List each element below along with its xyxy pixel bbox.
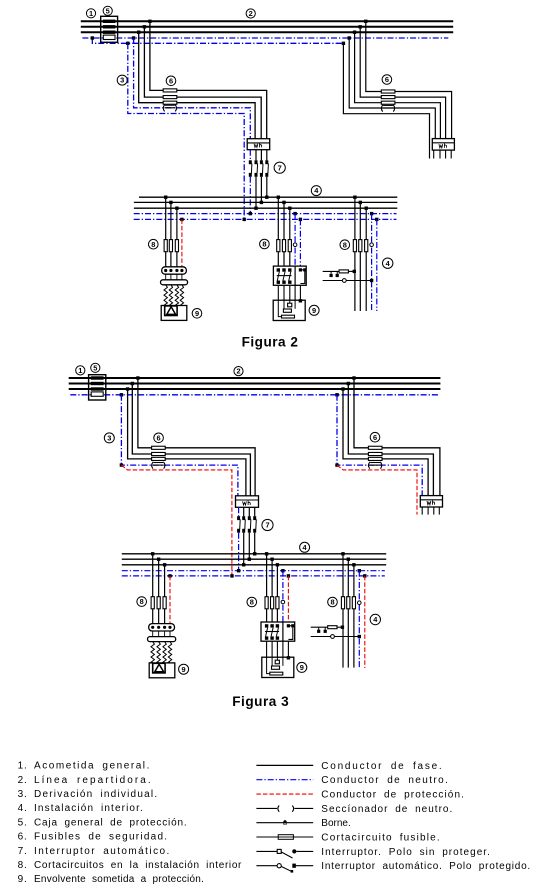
wire salidas contador derecha (Fig2): [434, 150, 452, 158]
wire rama central salidas a envolvente (Fig3): [267, 641, 289, 657]
node: tomas rama derecha (Fig2): [353, 196, 378, 222]
wire rama central neutro (Fig3): [282, 571, 284, 622]
wire derivacion fase L2 (Fig3): [132, 384, 250, 496]
wire derivacion fase L1 (Fig2): [150, 21, 267, 138]
label circulo 7 (Fig2): [274, 162, 285, 173]
leyenda: cortacircuito fusible (simbolo): [256, 833, 440, 844]
interruptores del circuito monofasico (Fig2): [330, 271, 339, 277]
wire derivacion fase L3 (Fig2): [139, 32, 255, 139]
wire fase L3 (Fig3): [69, 388, 441, 390]
circuito monofasico: neutro con borne (Fig2): [323, 279, 374, 283]
wire rama central fases (Fig3): [267, 554, 278, 622]
borne en neutro rama central (Fig3): [281, 600, 285, 604]
borne en neutro rama central (Fig2): [293, 243, 297, 247]
wire rama izquierda fases (Fig3): [153, 554, 165, 624]
leyenda fila 7. Interruptor autom&#225;t: [18, 846, 171, 857]
cortacircuitos 8 rama izquierda (Fig2): [164, 240, 178, 252]
interruptor automatico 7 (Fig2): 4 polos: [249, 150, 269, 177]
svg-text:Conductor de neutro.: Conductor de neutro.: [321, 775, 449, 786]
node: derivacion derecha tomas (Fig2): [342, 20, 368, 45]
svg-text:Conductor de fase.: Conductor de fase.: [321, 761, 443, 772]
circuito monofasico: fase con cortacircuito fusible (Fig2): [323, 270, 356, 273]
envolvente 9 rama izquierda (Fig3): [149, 663, 175, 678]
svg-text:6.: 6.: [18, 832, 28, 843]
interruptores del circuito monofasico (Fig3): [317, 627, 327, 633]
wire rama izquierda fases (Fig2): [166, 197, 177, 267]
svg-text:Interruptor. Polo sin proteger: Interruptor. Polo sin proteger.: [321, 847, 491, 858]
interruptor automatico 7 (Fig3): 4 polos: [237, 507, 256, 532]
wire neutro N (Fig3): [70, 394, 438, 396]
wire instalacion interior fase L2 (Fig3): [122, 558, 386, 560]
svg-text:9: 9: [195, 309, 199, 318]
label circulo 3 (Fig2): [117, 75, 127, 85]
svg-text:1.: 1.: [18, 761, 28, 772]
wire instalacion interior fase L1 (Fig3): [122, 553, 386, 555]
envolvente 9 rama central (Fig3): [262, 656, 294, 677]
svg-text:Acometida general.: Acometida general.: [34, 761, 151, 772]
interruptor automatico rama central (Fig3): [261, 622, 295, 641]
svg-text:8: 8: [250, 598, 254, 607]
node: derivacion izquierda tomas (Fig3): [120, 376, 140, 396]
svg-text:2: 2: [249, 9, 253, 18]
wire derivacion derecha neutro (Fig2): [349, 38, 435, 139]
cortacircuitos 8 rama derecha (Fig3): [341, 597, 355, 609]
svg-text:Borne.: Borne.: [321, 818, 350, 829]
label circulo 4 superior (Fig2): [311, 186, 321, 196]
wire derivacion neutro-PE N2 vertical+horizontal (Fig2): [128, 43, 244, 219]
svg-text:3: 3: [107, 434, 111, 443]
wire rama central salidas a envolvente (Fig2): [278, 285, 300, 300]
svg-text:3: 3: [120, 76, 124, 85]
toma de corriente y clavija rama izquierda (Fig2): [161, 267, 188, 306]
wire rama central conductor proteccion (Fig3): [287, 576, 289, 622]
wire rama central neutro-PE (Fig2): [299, 219, 301, 266]
svg-text:Seccíonador de neutro.: Seccíonador de neutro.: [321, 804, 453, 815]
leyenda fila 3. Derivaci&#243;n individu: [18, 789, 159, 800]
wire derivacion neutro (Fig3): [121, 395, 237, 496]
svg-text:5: 5: [93, 363, 97, 372]
wire fase L1 (Fig3): [69, 377, 441, 379]
seccionador de neutro izquierda (Fig3): [152, 462, 165, 469]
node: arranque conductor proteccion derecha (Fig3): [335, 463, 338, 466]
borne en neutro rama derecha (Fig3): [358, 601, 362, 605]
svg-text:2.: 2.: [18, 775, 28, 786]
label circulo 4 superior (Fig3): [300, 542, 310, 552]
node: derivacion izquierda tomas (Fig2): [126, 20, 151, 45]
svg-text:Interruptor automático. Polo p: Interruptor automático. Polo protegido.: [321, 861, 531, 872]
seccionador de neutro derecha (Fig2): [381, 105, 394, 112]
svg-text:9: 9: [182, 665, 186, 674]
label circulo 6 derecha (Fig3): [370, 432, 380, 442]
svg-text:7: 7: [278, 163, 282, 172]
wire neutro N (Fig2, conductor de neutro): [82, 37, 448, 39]
label circulo 9 central (Fig2): [309, 305, 319, 315]
svg-text:8: 8: [343, 240, 347, 249]
wire rama central fases (Fig2): [278, 197, 290, 266]
circuito monofasico: neutro con borne (Fig3): [311, 635, 361, 639]
label circulo 6 derecha (Fig2): [382, 75, 392, 85]
wire neutro derivado N2 (Fig2): [92, 38, 343, 43]
wire rama derecha neutro-PE (Fig2): [376, 219, 378, 311]
label circulo 5 (Fig3): [91, 363, 100, 372]
wire instalacion interior fase L1 (Fig2): [139, 196, 397, 198]
svg-text:8.: 8.: [18, 860, 28, 871]
node: tomas rama central (Fig3): [265, 552, 290, 578]
wire fase L2 (Fig2): [81, 26, 453, 28]
svg-text:6: 6: [373, 433, 377, 442]
label circulo 9 izquierda (Fig2): [192, 309, 202, 319]
wire rama izquierda conductor de proteccion (Fig2): [181, 219, 183, 266]
node: arranque conductor proteccion (Fig3): [120, 463, 123, 466]
svg-text:8: 8: [262, 240, 266, 249]
leyenda fila 9. Envolvente sometida a pr: [18, 874, 205, 885]
leyenda fila 6. Fusibles de seguridad.: [18, 832, 169, 843]
label circulo 8 izquierda (Fig3): [137, 597, 147, 607]
svg-text:Cortacircuito fusible.: Cortacircuito fusible.: [321, 833, 441, 844]
leyenda: interruptor automatico polo protegido (simbolo): [256, 861, 531, 872]
leyenda fila 4. Instalaci&#243;n interio: [18, 803, 144, 814]
wire instalacion interior conductor proteccion (Fig3): [122, 575, 385, 577]
leyenda fila 5. Caja general de protecci: [18, 817, 188, 828]
wire salidas contador derecha (Fig3): [422, 507, 439, 515]
wire fase L2 (Fig3): [69, 383, 441, 385]
wire instalacion interior fase L3 (Fig3): [122, 564, 386, 566]
label circulo 8 derecha (Fig3): [328, 597, 338, 607]
cortacircuitos 8 rama central (Fig2): [277, 240, 292, 252]
svg-text:6: 6: [385, 75, 389, 84]
leyenda fila 2. L&#237;nea repartidora.: [18, 775, 153, 786]
leyenda: conductor de proteccion (linea roja): [256, 790, 465, 801]
label circulo 1 (Fig2): [86, 9, 95, 18]
svg-text:Fusibles de seguridad.: Fusibles de seguridad.: [34, 832, 168, 843]
svg-text:9.: 9.: [18, 874, 28, 885]
wire salidas fases a interior (Fig3): [244, 533, 255, 565]
wire derivacion fase L1 (Fig3): [138, 378, 255, 496]
svg-text:6: 6: [157, 433, 161, 442]
wire salidas fases a interior (Fig2): [256, 177, 267, 208]
contador Wh derecha (Fig3): [420, 496, 442, 507]
wire derivacion derecha fase L2 (Fig2): [360, 27, 445, 139]
wire derivacion derecha fase L2 (Fig3): [348, 384, 433, 496]
svg-text:8: 8: [151, 240, 155, 249]
wire instalacion interior neutro (Fig3): [122, 570, 385, 572]
label circulo 7 (Fig3): [262, 519, 273, 530]
fusibles de seguridad 6 izquierda (Fig2): [163, 89, 177, 104]
wire rama derecha conductor proteccion (Fig3): [364, 576, 366, 668]
label circulo 5 (Fig2): [103, 6, 112, 15]
borne en neutro rama derecha (Fig2): [370, 243, 374, 247]
caja general de proteccion 5 (Fig3): [89, 375, 106, 400]
node: toma neutro N2 (Fig2): [91, 36, 94, 39]
wire derivacion derecha PE/neutro2 (Fig2): [343, 43, 429, 158]
fusibles de seguridad 6 derecha (Fig2): [381, 90, 395, 104]
svg-text:8: 8: [330, 598, 334, 607]
leyenda: interruptor polo sin proteger (simbolo): [256, 847, 490, 858]
wire derivacion derecha fase L3 (Fig3): [343, 389, 428, 496]
label circulo 4 derecha (Fig3): [370, 614, 380, 624]
svg-text:5: 5: [106, 6, 110, 15]
label circulo 8 izquierda (Fig2): [149, 239, 159, 249]
node: conexiones contador-interior (Fig3): [230, 552, 256, 578]
wire salida neutro a interior (Fig2): [249, 177, 251, 214]
wire rama derecha neutro (Fig2): [371, 214, 373, 311]
svg-text:9: 9: [312, 306, 316, 315]
contador Wh derecha (Fig2): [432, 139, 454, 151]
svg-text:7.: 7.: [18, 846, 28, 857]
node: tomas rama izquierda (Fig2): [164, 196, 184, 222]
svg-text:2: 2: [236, 367, 240, 376]
wire conductor proteccion derecha (Fig3): [337, 465, 417, 514]
wire rama derecha fases (Fig3): [343, 554, 354, 668]
svg-text:Línea repartidora.: Línea repartidora.: [34, 775, 153, 786]
leyenda fila 1. Acometida general.: [18, 761, 151, 772]
svg-text:1: 1: [78, 366, 82, 375]
svg-text:Cortacircuitos en la instalaci: Cortacircuitos en la instalación interio…: [34, 860, 242, 871]
wire instalacion interior fase L3 (Fig2): [134, 207, 397, 209]
label circulo 8 central (Fig3): [247, 597, 257, 607]
wire rama izquierda conductor de proteccion (Fig3): [169, 576, 171, 624]
svg-text:3.: 3.: [18, 789, 28, 800]
envolvente 9 rama central (Fig2): [273, 299, 305, 320]
leyenda: conductor de fase (linea): [256, 761, 443, 772]
cortacircuitos 8 rama central (Fig3): [265, 597, 279, 609]
wire instalacion interior neutro-PE (Fig2): [134, 218, 397, 220]
node: derivacion derecha tomas (Fig3): [335, 376, 355, 396]
wire derivacion fase L3 (Fig3): [128, 389, 246, 496]
cortacircuitos 8 rama izquierda (Fig3): [151, 597, 166, 609]
contador Wh izquierda (Fig2): [247, 139, 270, 150]
seccionador de neutro derecha (Fig3): [368, 462, 381, 469]
svg-text:Interruptor automático.: Interruptor automático.: [34, 846, 171, 857]
label circulo 9 izquierda (Fig3): [179, 664, 189, 674]
circuito monofasico: fase con cortacircuito fusible (Fig3): [311, 626, 344, 629]
svg-text:5.: 5.: [18, 817, 28, 828]
leyenda: borne (simbolo): [256, 818, 350, 829]
wire instalacion interior fase L2 (Fig2): [134, 201, 397, 203]
contador Wh izquierda (Fig3): [236, 496, 259, 508]
svg-text:Conductor de protección.: Conductor de protección.: [321, 790, 465, 801]
svg-text:Instalación interior.: Instalación interior.: [34, 803, 144, 814]
seccionador de neutro (fusibles 6 izquierda, Fig2): [163, 105, 176, 112]
wire fase L1 (acometida/linea repartidora, Fig2): [81, 20, 453, 22]
svg-text:Figura 3: Figura 3: [232, 694, 289, 709]
label circulo 6 izquierda (Fig2): [166, 76, 176, 86]
wire derivacion derecha fase L1 (Fig3): [354, 378, 440, 496]
wire rama derecha neutro (Fig3): [358, 571, 360, 668]
wire derivacion derecha neutro (Fig3): [337, 395, 422, 496]
node: conexiones contador-interior (Fig2): [243, 196, 269, 222]
caja general de proteccion 5 (Fig2): [101, 16, 118, 42]
node: tomas rama central (Fig2): [277, 196, 303, 222]
wire fase L3 (Fig2): [81, 31, 453, 33]
wire conductor de proteccion desde origen (Fig3): [121, 465, 231, 576]
leyenda fila 8. Cortacircuitos en la ins: [18, 860, 242, 871]
label circulo 8 central (Fig2): [260, 239, 270, 249]
wire rama central neutro (Fig2): [294, 214, 296, 267]
envolvente 9 rama izquierda (Fig2): [161, 306, 187, 321]
fusibles de seguridad 6 derecha (Fig3): [368, 446, 382, 460]
wire derivacion fase L2 (Fig2): [144, 27, 261, 139]
svg-text:7: 7: [265, 521, 269, 530]
label circulo 9 central (Fig3): [297, 662, 307, 672]
leyenda: seccionador de neutro (simbolo): [256, 804, 453, 815]
svg-text:Caja general de protección.: Caja general de protección.: [34, 817, 187, 828]
label circulo 3 (Fig3): [104, 433, 114, 443]
leyenda: conductor de neutro (linea azul): [256, 775, 449, 786]
wire derivacion derecha fase L1 (Fig2): [366, 21, 452, 138]
label circulo 2 (Fig2): [246, 9, 255, 18]
fusibles de seguridad 6 izquierda (Fig3): [152, 446, 166, 460]
label circulo 2 (Fig3): [234, 367, 243, 376]
svg-text:Envolvente sometida a protecci: Envolvente sometida a protección.: [34, 874, 204, 885]
label circulo 6 izquierda (Fig3): [154, 433, 164, 443]
svg-text:Figura 2: Figura 2: [242, 334, 299, 349]
cortacircuitos 8 rama derecha (Fig2): [353, 240, 368, 252]
svg-text:9: 9: [300, 663, 304, 672]
node: tomas rama derecha (Fig3): [341, 552, 366, 578]
label circulo 1 (Fig3): [76, 366, 85, 375]
interruptor automatico rama central (Fig2): [273, 266, 306, 285]
label circulo 4 derecha (Fig2): [383, 258, 393, 268]
node: tomas rama izquierda (Fig3): [151, 552, 172, 578]
label circulo 8 derecha (Fig2): [340, 240, 350, 250]
wire instalacion interior neutro (Fig2): [134, 213, 397, 215]
wire salida neutro a interior (Fig3): [238, 533, 240, 571]
svg-text:Derivación individual.: Derivación individual.: [34, 789, 158, 800]
wire derivacion neutro N1 (Fig2): [134, 38, 251, 139]
svg-text:1: 1: [89, 9, 93, 18]
wire rama derecha fases (Fig2): [355, 197, 366, 311]
svg-text:8: 8: [140, 597, 144, 606]
svg-text:4.: 4.: [18, 803, 28, 814]
toma de corriente y clavija rama izquierda (Fig3): [148, 624, 176, 663]
wire derivacion derecha fase L3 (Fig2): [355, 32, 441, 138]
svg-text:6: 6: [169, 76, 173, 85]
